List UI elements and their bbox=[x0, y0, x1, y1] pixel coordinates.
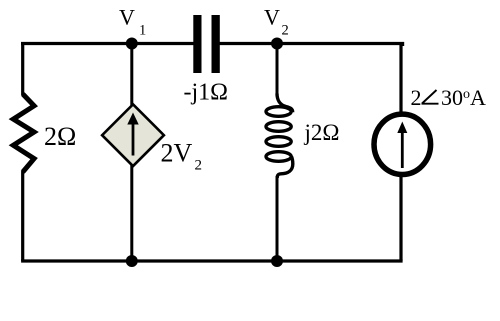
wire branch V2 upper (node V2 to inductor top) bbox=[276, 44, 279, 96]
wire left vertical lower (resistor bottom to bottom-left corner) bbox=[21, 171, 24, 261]
svg-text:V: V bbox=[264, 5, 280, 30]
wire branch V1 upper (node V1 to dependent source top) bbox=[130, 44, 133, 107]
node V1 label bbox=[119, 5, 146, 39]
bottom junction dot (V1 branch) bbox=[126, 255, 138, 267]
svg-text:V: V bbox=[119, 5, 135, 30]
resistor 2Ω zigzag bbox=[13, 94, 34, 172]
wire top-left segment (top-left corner to capacitor left plate) bbox=[21, 42, 195, 45]
svg-text:2Ω: 2Ω bbox=[44, 122, 76, 151]
inductor value label j2Ω bbox=[304, 120, 340, 145]
wire branch V2 lower (inductor bottom to bottom rail) bbox=[276, 176, 279, 261]
svg-text:-j1Ω: -j1Ω bbox=[184, 80, 229, 106]
dependent source value label 2V2 bbox=[161, 139, 203, 174]
svg-text:j2Ω: j2Ω bbox=[304, 120, 340, 145]
capacitor value label -j1Ω bbox=[184, 80, 229, 106]
capacitor -j1Ω (two plates) bbox=[193, 15, 220, 73]
node V2 label bbox=[264, 5, 289, 39]
wire right vertical upper (top-right corner to current source top) bbox=[399, 42, 402, 114]
wire left vertical upper (corner to resistor top) bbox=[21, 42, 24, 95]
svg-text:2: 2 bbox=[411, 85, 422, 110]
resistor value label 2Ω bbox=[44, 122, 76, 151]
current source value label 2∠30°A bbox=[411, 85, 487, 110]
svg-text:2: 2 bbox=[282, 23, 289, 39]
wire right vertical lower (current source bottom to bottom-right corner) bbox=[399, 175, 402, 261]
svg-text:1: 1 bbox=[139, 23, 146, 39]
node V1 junction dot bbox=[126, 38, 138, 50]
dependent current source 2V2 (diamond with up arrow) bbox=[102, 104, 164, 166]
svg-text:2: 2 bbox=[195, 158, 203, 174]
wire top-right segment (capacitor right plate to top-right corner) bbox=[218, 44, 403, 47]
current source 2∠30°A (circle with up arrow) bbox=[374, 114, 431, 174]
svg-text:2V: 2V bbox=[161, 139, 193, 168]
node V2 junction dot bbox=[271, 38, 283, 50]
inductor j2Ω (coil of 4 loops) bbox=[266, 94, 293, 179]
wire bottom rail bbox=[21, 259, 403, 262]
bottom junction dot (V2 branch) bbox=[271, 255, 283, 267]
wire branch V1 lower (dependent source bottom to bottom rail) bbox=[130, 165, 133, 261]
